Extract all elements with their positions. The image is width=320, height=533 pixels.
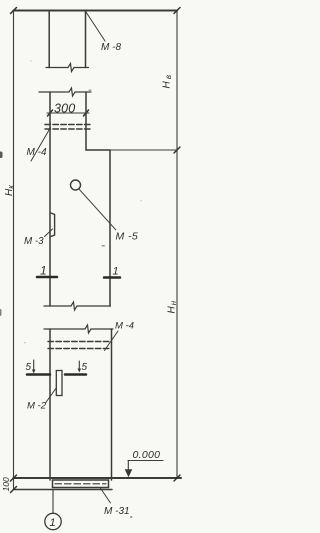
- svg-text:М -3: М -3: [24, 236, 44, 247]
- svg-text:5: 5: [26, 362, 32, 373]
- svg-text:Нк: Нк: [4, 184, 16, 196]
- svg-text:М -31: М -31: [104, 506, 130, 517]
- svg-text:5: 5: [82, 362, 88, 373]
- svg-text:Нн: Нн: [167, 300, 179, 314]
- svg-text:100: 100: [1, 477, 11, 491]
- svg-text:1: 1: [50, 517, 56, 529]
- svg-text:М -4: М -4: [115, 321, 134, 332]
- svg-text:1: 1: [113, 266, 119, 278]
- svg-text:Нв: Нв: [162, 73, 174, 89]
- svg-text:М -8: М -8: [101, 42, 121, 53]
- svg-text:300: 300: [54, 102, 75, 116]
- svg-text:М -4: М -4: [27, 147, 47, 158]
- svg-text:М -2: М -2: [27, 401, 47, 412]
- svg-text:М -5: М -5: [116, 231, 139, 243]
- svg-text:0.000: 0.000: [133, 449, 161, 461]
- svg-text:1: 1: [40, 264, 47, 278]
